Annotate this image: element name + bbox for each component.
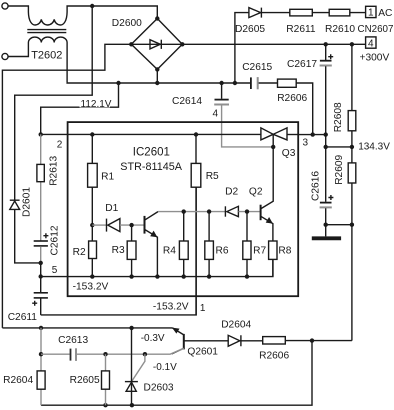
svg-text:R3: R3 <box>112 245 125 256</box>
connector CN2607 pin 1 <box>366 6 376 17</box>
node D1/R3 <box>129 223 133 227</box>
resistor R2613 column (gray wire) <box>40 134 42 241</box>
svg-text:1: 1 <box>200 303 206 314</box>
capacitor C2613 <box>41 348 184 361</box>
diode D1 <box>92 219 143 232</box>
node C2613 left <box>39 352 43 356</box>
capacitor C2615 <box>251 77 278 89</box>
svg-text:R2: R2 <box>73 247 86 258</box>
wire D2601 anode to node <box>15 209 41 263</box>
node pin5 <box>39 274 43 278</box>
svg-text:C2614: C2614 <box>172 96 202 107</box>
AC input terminal top <box>2 3 8 9</box>
svg-text:R2610: R2610 <box>325 24 355 35</box>
svg-text:STR-81145A: STR-81145A <box>120 161 182 173</box>
svg-text:R1: R1 <box>101 172 114 183</box>
transistor Q1 <box>145 212 159 277</box>
node R7 top <box>245 209 249 213</box>
resistor R2606 bottom <box>263 337 286 344</box>
wire 112.1V node <box>41 83 119 134</box>
svg-text:R4: R4 <box>163 246 176 257</box>
svg-text:3: 3 <box>303 138 309 149</box>
svg-text:R2606: R2606 <box>259 350 289 361</box>
svg-text:1: 1 <box>368 8 374 19</box>
svg-text:4: 4 <box>368 38 374 49</box>
capacitor C2612 <box>34 233 49 263</box>
svg-text:Q3: Q3 <box>282 148 296 159</box>
node R2605 top <box>103 352 107 356</box>
thyristor Q3 <box>261 128 298 147</box>
node R2608 top <box>350 42 354 46</box>
capacitor C2614 <box>214 83 229 105</box>
wire R2606 to ground column <box>285 340 352 342</box>
svg-text:CN2607: CN2607 <box>358 24 394 35</box>
svg-text:R2609: R2609 <box>334 154 345 184</box>
svg-text:C2616: C2616 <box>311 171 322 201</box>
resistor R2606 top <box>278 79 297 87</box>
resistor R2 <box>91 225 93 241</box>
wire AC row y83 <box>67 82 251 84</box>
wire R2611 to R2610 <box>312 12 329 14</box>
wire bridge bottom corner down <box>156 69 158 83</box>
capacitor C2611 <box>32 277 48 315</box>
svg-text:C2615: C2615 <box>242 62 272 73</box>
resistor R2611 <box>290 9 313 16</box>
svg-text:D2600: D2600 <box>112 18 142 29</box>
wire D2604 to R2606 <box>241 340 263 342</box>
node C2617 top <box>324 42 328 46</box>
node R6 top <box>207 209 211 213</box>
svg-text:C2611: C2611 <box>8 312 38 323</box>
node C2614 row <box>116 81 120 85</box>
node junction top wire <box>90 4 94 8</box>
svg-text:C2613: C2613 <box>58 335 88 346</box>
svg-text:C2617: C2617 <box>287 59 317 70</box>
wire transformer top-right to bridge top <box>67 6 157 19</box>
node R4 top <box>182 209 186 213</box>
svg-text:R6: R6 <box>216 246 229 257</box>
wire top AC terminal to transformer <box>8 6 28 12</box>
node D2601/C2612 <box>39 261 43 265</box>
transformer T2602 primary winding <box>28 12 67 25</box>
capacitor C2616 <box>320 147 352 225</box>
wire pin2 into IC top bus <box>41 133 261 135</box>
svg-text:-153.2V: -153.2V <box>73 282 109 293</box>
node D2603 jog <box>143 352 147 356</box>
resistor R3 <box>131 225 133 241</box>
wire junction column x92 down to D2601 <box>15 6 93 200</box>
resistor R2608 <box>351 44 353 110</box>
connector CN2607 pin 4 <box>366 37 376 48</box>
resistor R2604 <box>37 371 45 389</box>
IC2601 box <box>68 122 299 296</box>
diode D2601 <box>10 200 20 209</box>
svg-text:R2608: R2608 <box>333 102 344 132</box>
svg-text:AC: AC <box>378 8 392 19</box>
wire C2611 to IC pin1 <box>41 187 197 315</box>
wire node to pin5 node <box>40 263 42 277</box>
bottom bus nodes <box>90 274 94 278</box>
wire bridge left corner to left rail and down to bottom row <box>2 44 131 328</box>
transformer T2602 secondary winding <box>28 37 67 42</box>
wire D2605 branch <box>235 13 249 83</box>
svg-text:D2605: D2605 <box>235 24 265 35</box>
svg-text:-153.2V: -153.2V <box>153 302 189 313</box>
svg-text:R2605: R2605 <box>70 375 100 386</box>
svg-text:-0.3V: -0.3V <box>141 333 165 344</box>
svg-text:-0.1V: -0.1V <box>153 362 177 373</box>
svg-text:D2603: D2603 <box>144 382 174 393</box>
transistor Q2601 <box>172 328 228 354</box>
wire IC pin4 (gray) <box>222 106 274 147</box>
svg-text:R2606: R2606 <box>277 93 307 104</box>
diode D2605 <box>249 8 262 18</box>
resistor R7 <box>246 212 248 241</box>
wire D2605 to R2611 <box>261 12 289 14</box>
wire -0.3V row <box>2 327 172 329</box>
node pin2 <box>39 132 43 136</box>
wire R2610 to pin1 <box>350 12 366 14</box>
wire bottom AC terminal to transformer <box>8 43 28 57</box>
resistor R2604 column <box>40 328 42 405</box>
zener D2603 <box>125 328 138 405</box>
resistor R4 <box>183 212 185 241</box>
capacitor C2617 <box>320 44 334 134</box>
svg-text:T2602: T2602 <box>31 49 62 61</box>
svg-text:2: 2 <box>57 140 63 151</box>
IC bottom bus (pin5) <box>41 259 273 276</box>
ground <box>325 225 327 237</box>
transformer T2602 core <box>27 30 66 33</box>
wire transformer bottom-right down to AC row <box>66 43 68 83</box>
svg-text:R5: R5 <box>206 171 219 182</box>
label 112.1V <box>80 99 111 108</box>
svg-text:C2612: C2612 <box>50 225 61 255</box>
svg-text:D1: D1 <box>105 203 118 214</box>
resistor R5 <box>195 135 197 164</box>
wire R2606 to pin3 row <box>296 83 313 135</box>
pin3 row <box>298 135 352 147</box>
node R1/D1 <box>90 223 94 227</box>
svg-text:+300V: +300V <box>360 53 390 64</box>
resistor R2605 <box>105 354 107 405</box>
svg-text:R2613: R2613 <box>49 155 60 185</box>
svg-text:R2604: R2604 <box>3 375 33 386</box>
resistor R2609 <box>351 147 353 163</box>
svg-text:Q2601: Q2601 <box>187 346 218 357</box>
diode D2604 <box>228 335 241 346</box>
svg-text:4: 4 <box>213 109 219 120</box>
bottom rail <box>41 341 312 406</box>
svg-text:R7: R7 <box>253 246 266 257</box>
resistor R1 <box>91 135 93 164</box>
svg-text:Q2: Q2 <box>249 186 263 197</box>
svg-text:D2601: D2601 <box>22 187 33 217</box>
svg-text:R8: R8 <box>278 246 291 257</box>
wire top DC rail to connector <box>182 43 365 45</box>
diode D2 <box>225 206 259 216</box>
svg-text:5: 5 <box>52 265 58 276</box>
svg-text:134.3V: 134.3V <box>358 142 390 153</box>
AC input terminal bottom <box>2 53 8 59</box>
resistor R8 <box>269 241 277 259</box>
resistor R2610 <box>329 9 350 16</box>
node Q3 gate <box>271 145 275 149</box>
resistor R6 <box>208 212 210 241</box>
svg-text:R2611: R2611 <box>286 24 316 35</box>
gray base bus <box>158 211 225 213</box>
svg-text:D2: D2 <box>225 186 238 197</box>
svg-text:112.1V: 112.1V <box>81 99 112 110</box>
svg-text:IC2601: IC2601 <box>133 147 170 159</box>
transistor Q2 <box>261 147 274 241</box>
resistor R2613 <box>37 164 44 181</box>
bridge rectifier D2600 <box>129 16 184 71</box>
wire jog to zener <box>132 354 145 381</box>
svg-text:D2604: D2604 <box>221 320 251 331</box>
